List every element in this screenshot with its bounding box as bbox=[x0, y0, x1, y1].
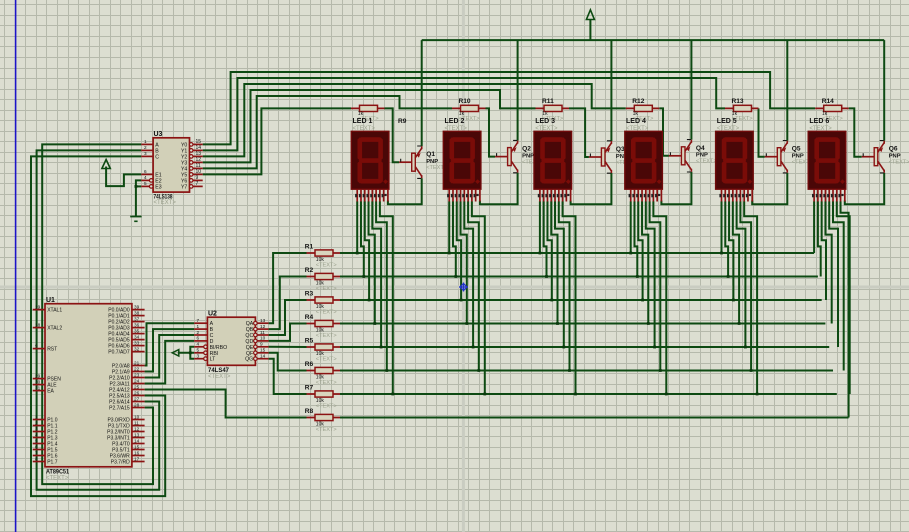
svg-text:<TEXT>: <TEXT> bbox=[353, 126, 376, 132]
junction LED5 e bus tap bbox=[744, 346, 747, 349]
junction LED2 e bus tap bbox=[472, 346, 475, 349]
transistor Q1 PNP bbox=[399, 146, 447, 178]
wire U3 Y5 to R9 bbox=[203, 108, 351, 174]
svg-text:1: 1 bbox=[144, 139, 147, 144]
svg-text:XTAL1: XTAL1 bbox=[47, 308, 62, 314]
svg-text:<TEXT>: <TEXT> bbox=[696, 159, 717, 165]
junction LED2 b bus tap bbox=[454, 275, 457, 278]
resistor R4 bbox=[305, 314, 340, 339]
axis lines bbox=[462, 0, 465, 532]
svg-text:5: 5 bbox=[35, 438, 38, 443]
junction LED3 b bus tap bbox=[545, 275, 548, 278]
svg-text:<TEXT>: <TEXT> bbox=[316, 427, 337, 433]
svg-text:8: 8 bbox=[35, 456, 38, 461]
junction LED5 b bus tap bbox=[727, 275, 730, 278]
svg-text:37: 37 bbox=[134, 316, 140, 321]
resistor R13 bbox=[725, 98, 759, 122]
junction LED5 c bus tap bbox=[732, 299, 735, 302]
svg-text:<TEXT>: <TEXT> bbox=[46, 476, 69, 482]
junction LED3 d bus tap bbox=[556, 322, 559, 325]
wire LED6 pin a riser bbox=[813, 201, 815, 253]
junction LED5 f bus tap bbox=[750, 369, 753, 372]
wire LED2 pin b riser bbox=[453, 201, 456, 276]
wire LED6 pin b riser bbox=[818, 201, 821, 276]
junction LED1 g bus tap bbox=[391, 393, 394, 396]
svg-text:<TEXT>: <TEXT> bbox=[316, 286, 337, 292]
wire R13 to Q5 base bbox=[759, 108, 765, 156]
svg-text:26: 26 bbox=[134, 390, 140, 395]
wire LED2 pin a riser bbox=[448, 201, 450, 253]
svg-text:4: 4 bbox=[35, 432, 38, 437]
resistor R3 bbox=[305, 291, 340, 316]
svg-text:32: 32 bbox=[134, 346, 140, 351]
origin marker bbox=[459, 283, 468, 292]
power rail VCC bbox=[422, 39, 885, 41]
svg-text:Q3: Q3 bbox=[616, 146, 625, 153]
resistor R5 bbox=[305, 338, 340, 363]
transistor Q4 PNP bbox=[669, 140, 717, 172]
svg-text:15: 15 bbox=[260, 348, 266, 353]
svg-text:6: 6 bbox=[35, 444, 38, 449]
svg-text:12: 12 bbox=[260, 324, 266, 329]
junction LED1 b bus tap bbox=[362, 275, 365, 278]
resistor R1 bbox=[305, 244, 340, 269]
wire U3 E2 to ground bbox=[136, 180, 141, 216]
IC U3 74LS138 bbox=[141, 131, 202, 206]
svg-text:<TEXT>: <TEXT> bbox=[445, 126, 468, 132]
svg-text:5: 5 bbox=[197, 348, 200, 353]
wire Q4 collector to LED4 common bbox=[661, 172, 691, 204]
junction LED1 e bus tap bbox=[380, 346, 383, 349]
svg-text:R7: R7 bbox=[305, 385, 314, 392]
svg-text:P3.7/RD: P3.7/RD bbox=[111, 460, 130, 466]
wire segment bus b (R2) bbox=[340, 276, 818, 278]
svg-text:21: 21 bbox=[134, 360, 140, 365]
svg-text:P2.7/A15: P2.7/A15 bbox=[109, 406, 130, 412]
svg-text:17: 17 bbox=[134, 456, 140, 461]
wire LED5 pin e riser bbox=[737, 201, 746, 347]
resistor R14 bbox=[815, 98, 849, 122]
svg-text:<TEXT>: <TEXT> bbox=[889, 160, 909, 166]
svg-text:R12: R12 bbox=[632, 98, 644, 105]
wire R10 to Q2 base bbox=[486, 108, 496, 156]
svg-text:<TEXT>: <TEXT> bbox=[626, 126, 649, 132]
svg-text:9: 9 bbox=[260, 342, 263, 347]
wire LED4 pin a riser bbox=[630, 201, 632, 253]
7-segment display LED2 bbox=[443, 118, 481, 201]
wire U3 E3 to ground net bbox=[136, 185, 141, 187]
svg-text:23: 23 bbox=[134, 372, 140, 377]
svg-text:E3: E3 bbox=[155, 184, 161, 190]
wire R12 to Q4 base bbox=[659, 108, 669, 155]
junction LED1 c bus tap bbox=[368, 299, 371, 302]
svg-text:13: 13 bbox=[134, 432, 140, 437]
junction LED5 d bus tap bbox=[738, 322, 741, 325]
junction LED4 b bus tap bbox=[636, 275, 639, 278]
svg-text:R8: R8 bbox=[305, 408, 314, 415]
wire LED4 pin g riser bbox=[653, 201, 666, 394]
wire LED1 pin b riser bbox=[361, 201, 364, 276]
svg-text:27: 27 bbox=[134, 396, 140, 401]
svg-text:R10: R10 bbox=[459, 98, 471, 105]
wire LED2 pin f riser bbox=[468, 201, 479, 370]
wire Q2 collector to LED2 common bbox=[480, 173, 518, 205]
svg-text:14: 14 bbox=[134, 438, 140, 443]
svg-text:16: 16 bbox=[134, 450, 140, 455]
svg-text:LED 6: LED 6 bbox=[809, 118, 829, 125]
wire segment bus e (R5) bbox=[340, 346, 829, 348]
junction LED2 c bus tap bbox=[460, 299, 463, 302]
svg-text:36: 36 bbox=[134, 322, 140, 327]
wire LED2 pin g riser bbox=[472, 201, 485, 394]
svg-text:3: 3 bbox=[144, 151, 147, 156]
svg-text:24: 24 bbox=[134, 378, 140, 383]
wire LED5 pin a riser bbox=[721, 201, 723, 253]
wire LED6 dp to R8 bus bbox=[841, 201, 849, 417]
junction LED3 c bus tap bbox=[550, 299, 553, 302]
svg-text:2: 2 bbox=[144, 145, 147, 150]
wire segment bus f (R6) bbox=[340, 370, 833, 372]
svg-text:AT89C51: AT89C51 bbox=[46, 469, 69, 476]
svg-text:<TEXT>: <TEXT> bbox=[316, 310, 337, 316]
wire LED5 pin d riser bbox=[733, 201, 739, 323]
wire U1 P2.2 to U2 pin bbox=[145, 335, 195, 378]
wire LED6 pin c riser bbox=[822, 201, 826, 300]
wire U2 QB to R2 bbox=[269, 277, 307, 330]
svg-text:28: 28 bbox=[134, 402, 140, 407]
svg-text:3: 3 bbox=[197, 354, 200, 359]
wire LED2 pin e riser bbox=[464, 201, 473, 347]
wire LED1 pin g riser bbox=[380, 201, 393, 394]
wire segment bus dp (R8) bbox=[340, 417, 849, 419]
wire VCC drop to Q4 emitter bbox=[690, 40, 692, 140]
junction E2/E3 tie bbox=[135, 185, 138, 188]
wire U3 E1 to power bbox=[106, 167, 141, 187]
wire R11 to Q3 base bbox=[569, 108, 589, 157]
svg-text:29: 29 bbox=[35, 373, 41, 378]
svg-text:<TEXT>: <TEXT> bbox=[316, 263, 337, 269]
svg-text:C: C bbox=[155, 154, 159, 160]
svg-text:35: 35 bbox=[134, 328, 140, 333]
svg-text:<TEXT>: <TEXT> bbox=[154, 200, 177, 206]
svg-text:38: 38 bbox=[134, 310, 140, 315]
wire LED3 pin e riser bbox=[555, 201, 564, 347]
wire U1 P2.4 to R8 bbox=[145, 390, 307, 418]
svg-text:R3: R3 bbox=[305, 291, 314, 298]
resistor R8 bbox=[305, 408, 340, 433]
svg-text:7: 7 bbox=[197, 318, 200, 323]
wire Q1 collector to LED1 common bbox=[388, 178, 422, 204]
wire LED3 pin g riser bbox=[563, 201, 576, 394]
wire U1 P2.5 to U3 C bbox=[31, 156, 165, 496]
wire VCC drop to Q2 emitter bbox=[517, 40, 519, 141]
wire LED5 pin b riser bbox=[725, 201, 728, 276]
svg-text:30: 30 bbox=[35, 379, 41, 384]
svg-text:25: 25 bbox=[134, 384, 140, 389]
svg-text:7: 7 bbox=[196, 181, 199, 187]
svg-text:R11: R11 bbox=[542, 98, 554, 105]
7-segment display LED1 bbox=[351, 118, 389, 201]
transistor Q5 PNP bbox=[765, 141, 813, 173]
IC U1 AT89C51 bbox=[33, 297, 145, 482]
wire VCC drop to Q3 emitter bbox=[610, 40, 612, 141]
junction LED4 a bus tap bbox=[629, 252, 632, 255]
svg-text:7: 7 bbox=[35, 450, 38, 455]
junction LED4 e bus tap bbox=[653, 346, 656, 349]
wire LED4 pin b riser bbox=[634, 201, 637, 276]
svg-text:15: 15 bbox=[134, 444, 140, 449]
wire LED3 pin b riser bbox=[544, 201, 547, 276]
wire segment bus d (R4) bbox=[340, 323, 825, 325]
svg-text:U1: U1 bbox=[46, 297, 55, 304]
wire U1 P2.1 to U2 pin bbox=[145, 329, 195, 371]
junction LED1 f bus tap bbox=[385, 369, 388, 372]
svg-text:4: 4 bbox=[197, 342, 200, 347]
power arrow symbol top bbox=[586, 10, 594, 20]
svg-text:6: 6 bbox=[144, 169, 147, 174]
wire U3 Y4 bus to R10 bbox=[203, 96, 452, 168]
svg-text:10: 10 bbox=[260, 336, 266, 341]
transistor Q2 PNP bbox=[495, 140, 543, 172]
wire segment bus a (R1) bbox=[340, 252, 814, 254]
wire LED3 pin a riser bbox=[539, 201, 541, 253]
junction LED5 a bus tap bbox=[720, 252, 723, 255]
svg-text:Q4: Q4 bbox=[696, 145, 705, 152]
wire U3 Y1 bus to R13 bbox=[203, 78, 725, 150]
svg-text:R1: R1 bbox=[305, 244, 314, 251]
junction LED4 f bus tap bbox=[659, 369, 662, 372]
svg-text:P0.7/AD7: P0.7/AD7 bbox=[108, 350, 130, 356]
svg-text:2: 2 bbox=[197, 330, 200, 335]
wire U3 Y0 bus to R14 bbox=[203, 72, 816, 144]
junction LED2 a bus tap bbox=[448, 252, 451, 255]
svg-text:R13: R13 bbox=[732, 98, 744, 105]
power arrow (U3 E1) bbox=[102, 160, 110, 169]
svg-text:R4: R4 bbox=[305, 314, 314, 321]
resistor R11 bbox=[536, 98, 570, 122]
junction LED5 g bus tap bbox=[756, 393, 759, 396]
resistor R6 bbox=[305, 361, 340, 386]
wire segment bus c (R3) bbox=[340, 299, 822, 301]
wire R14 to Q6 base bbox=[849, 108, 862, 156]
7-segment display LED6 bbox=[808, 118, 846, 201]
svg-text:Q6: Q6 bbox=[889, 146, 898, 153]
svg-text:<TEXT>: <TEXT> bbox=[316, 404, 337, 410]
svg-text:5: 5 bbox=[144, 181, 147, 186]
resistor R7 bbox=[305, 385, 340, 410]
resistor R10 bbox=[452, 98, 486, 122]
transistor Q3 PNP bbox=[589, 141, 637, 173]
svg-text:P1.7: P1.7 bbox=[47, 460, 58, 466]
svg-text:33: 33 bbox=[134, 340, 140, 345]
junction LED1 a bus tap bbox=[356, 252, 359, 255]
IC U2 74LS47 bbox=[194, 310, 268, 380]
wire power rail riser bbox=[589, 20, 591, 41]
junction LED4 g bus tap bbox=[665, 393, 668, 396]
wire U2 BI/RBO to LT loop bbox=[190, 347, 194, 359]
wire U2 QG to R7 bbox=[269, 359, 307, 394]
svg-text:9: 9 bbox=[35, 343, 38, 348]
junction LED1 d bus tap bbox=[373, 322, 376, 325]
7-segment display LED5 bbox=[716, 118, 754, 201]
svg-text:R5: R5 bbox=[305, 338, 314, 345]
wire U2 QA to R1 bbox=[269, 253, 307, 323]
7-segment display LED4 bbox=[625, 118, 663, 201]
svg-text:QG: QG bbox=[245, 357, 253, 363]
junction LED3 a bus tap bbox=[539, 252, 542, 255]
junction LED2 g bus tap bbox=[483, 393, 486, 396]
svg-text:Q5: Q5 bbox=[792, 146, 801, 153]
wire U1 P2.7 to U3 A bbox=[42, 144, 153, 484]
wire U2 QC to R3 bbox=[269, 300, 307, 335]
wire LED1 pin c riser bbox=[365, 201, 369, 300]
svg-text:12: 12 bbox=[134, 426, 140, 431]
svg-text:1: 1 bbox=[197, 324, 200, 329]
wire LED6 pin e riser bbox=[829, 201, 838, 347]
power arrow (U2 RBI) bbox=[172, 350, 179, 356]
wire LED5 pin f riser bbox=[740, 201, 751, 370]
junction RBI tie bbox=[189, 351, 192, 354]
junction LED3 f bus tap bbox=[568, 369, 571, 372]
junction LED3 e bus tap bbox=[562, 346, 565, 349]
sheet border (blue) bbox=[15, 0, 17, 532]
svg-text:XTAL2: XTAL2 bbox=[47, 326, 62, 332]
wire LED6 pin f riser bbox=[833, 201, 844, 370]
svg-text:U2: U2 bbox=[208, 310, 217, 317]
junction LED4 c bus tap bbox=[641, 299, 644, 302]
wire Q5 collector to LED5 common bbox=[752, 173, 787, 205]
wire LED3 pin d riser bbox=[551, 201, 557, 323]
svg-text:31: 31 bbox=[35, 385, 41, 390]
wire LED2 pin c riser bbox=[457, 201, 461, 300]
junction LED4 d bus tap bbox=[647, 322, 650, 325]
wire LED6 pin d riser bbox=[825, 201, 831, 323]
wire LED3 pin f riser bbox=[559, 201, 570, 370]
svg-text:14: 14 bbox=[260, 354, 266, 359]
wire LED1 pin f riser bbox=[376, 201, 387, 370]
wire LED1 pin d riser bbox=[369, 201, 375, 323]
svg-text:U3: U3 bbox=[154, 131, 163, 138]
svg-text:34: 34 bbox=[134, 334, 140, 339]
svg-text:Q2: Q2 bbox=[522, 146, 531, 153]
transistor Q6 PNP bbox=[862, 141, 909, 173]
svg-text:EA: EA bbox=[47, 389, 54, 395]
wire VCC drop to Q6 emitter bbox=[883, 40, 885, 141]
svg-text:LED 1: LED 1 bbox=[353, 118, 373, 125]
wire LED6 pin g riser bbox=[837, 201, 850, 394]
wire LED4 pin d riser bbox=[642, 201, 648, 323]
wire U1 P2.3 to U2 pin bbox=[145, 341, 195, 384]
svg-text:22: 22 bbox=[134, 366, 140, 371]
svg-text:R9: R9 bbox=[398, 118, 407, 125]
wire U1 P2.0 to U2 pin bbox=[145, 323, 195, 365]
wire U2 RBI to power arrow bbox=[178, 352, 194, 354]
svg-text:R14: R14 bbox=[822, 98, 834, 105]
wire LED4 pin c riser bbox=[638, 201, 642, 300]
ground symbol bbox=[130, 217, 141, 222]
7-segment display LED3 bbox=[534, 118, 572, 201]
wire LED4 pin e riser bbox=[646, 201, 655, 347]
svg-text:LED 3: LED 3 bbox=[535, 118, 555, 125]
svg-text:<TEXT>: <TEXT> bbox=[717, 126, 740, 132]
wire U2 QD to R4 bbox=[269, 324, 307, 341]
svg-text:1: 1 bbox=[35, 414, 38, 419]
svg-text:19: 19 bbox=[35, 304, 41, 309]
wire Q6 collector to LED6 common bbox=[845, 173, 884, 205]
wire LED5 pin g riser bbox=[744, 201, 757, 394]
svg-text:Y7: Y7 bbox=[181, 184, 187, 190]
wire VCC drop to Q1 emitter bbox=[421, 40, 423, 146]
svg-text:R2: R2 bbox=[305, 267, 314, 274]
svg-text:39: 39 bbox=[134, 304, 140, 309]
wire LED1 pin a riser bbox=[356, 201, 358, 253]
svg-text:3: 3 bbox=[35, 426, 38, 431]
svg-text:<TEXT>: <TEXT> bbox=[316, 380, 337, 386]
svg-text:<TEXT>: <TEXT> bbox=[316, 333, 337, 339]
svg-text:<TEXT>: <TEXT> bbox=[809, 126, 832, 132]
wire LED2 pin d riser bbox=[461, 201, 467, 323]
wire LED4 pin f riser bbox=[650, 201, 661, 370]
junction LED3 g bus tap bbox=[574, 393, 577, 396]
svg-text:<TEXT>: <TEXT> bbox=[208, 374, 231, 380]
svg-text:LED 5: LED 5 bbox=[717, 118, 737, 125]
wire VCC drop to Q5 emitter bbox=[786, 40, 788, 141]
svg-text:2: 2 bbox=[35, 420, 38, 425]
wire U1 P2.6 to U3 B bbox=[37, 150, 160, 489]
wire LED5 pin c riser bbox=[729, 201, 733, 300]
svg-text:18: 18 bbox=[35, 322, 41, 327]
svg-text:11: 11 bbox=[260, 330, 265, 335]
junction LED2 d bus tap bbox=[465, 322, 468, 325]
resistor R12 bbox=[626, 98, 660, 122]
svg-text:LT: LT bbox=[210, 357, 216, 363]
svg-text:RST: RST bbox=[47, 347, 57, 353]
junction LED2 f bus tap bbox=[477, 369, 480, 372]
wire segment bus g (R7) bbox=[340, 393, 837, 395]
svg-text:11: 11 bbox=[134, 420, 139, 425]
wire Q3 collector to LED3 common bbox=[571, 173, 612, 204]
svg-text:13: 13 bbox=[260, 318, 266, 323]
wire U2 QE to R5 bbox=[269, 346, 307, 348]
svg-text:Q1: Q1 bbox=[426, 151, 435, 158]
resistor R9 bbox=[351, 105, 407, 125]
wire LED3 pin c riser bbox=[547, 201, 551, 300]
svg-text:R6: R6 bbox=[305, 361, 314, 368]
svg-text:LED 2: LED 2 bbox=[445, 118, 465, 125]
wire LED1 pin e riser bbox=[372, 201, 381, 347]
svg-text:4: 4 bbox=[144, 175, 147, 180]
wire R9 to Q1 base bbox=[385, 108, 400, 162]
svg-text:LED 4: LED 4 bbox=[626, 118, 646, 125]
svg-text:10: 10 bbox=[134, 414, 140, 419]
wire U2 QF to R6 bbox=[269, 353, 307, 371]
wire U3 Y3 bus to R11 bbox=[203, 90, 536, 162]
svg-text:6: 6 bbox=[197, 336, 200, 341]
wire U3 Y2 bus to R12 bbox=[203, 84, 626, 156]
resistor R2 bbox=[305, 267, 340, 292]
svg-text:<TEXT>: <TEXT> bbox=[316, 357, 337, 363]
svg-text:<TEXT>: <TEXT> bbox=[535, 126, 558, 132]
